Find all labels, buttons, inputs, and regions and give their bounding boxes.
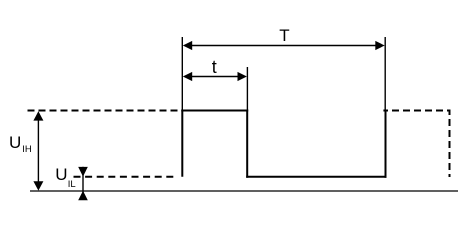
extension line right of T dimension [384,37,386,110]
arrowhead t left [183,72,192,81]
wire: pulse falling edge [246,110,248,178]
svg-text:T: T [279,26,289,45]
arrowhead T right [375,41,384,50]
dimension line U_IL (low level, outside arrows) [82,167,84,200]
extension line right of t dimension [246,67,248,110]
arrowhead t right [238,72,247,81]
wire: pulse low segment [246,176,386,178]
arrowhead U_IL top (points down, tip on dashed low line) [78,167,88,177]
baseline (signal ground axis) [30,190,458,192]
arrowhead U_IH top (up) [33,111,43,120]
dimension line T [189,45,378,47]
svg-text:IL: IL [68,179,76,190]
wire: pulse rising edge 2 [385,110,387,178]
dimension line U_IH (high level amplitude) [37,118,39,184]
arrowhead T left [183,41,192,50]
arrowhead U_IL bottom (points up, tip on baseline) [78,191,88,200]
extension line left (shared by T and t dimensions) [181,37,183,110]
wire: dashed continuation of next pulse (top right + falling edge) [383,111,449,178]
svg-text:t: t [212,57,217,77]
arrowhead U_IH bottom (down) [33,181,43,190]
svg-text:U: U [55,165,67,184]
svg-text:IH: IH [22,144,32,155]
svg-text:U: U [9,133,21,152]
wire: dashed low level, left continuation [74,176,178,178]
dimension line t [189,76,240,78]
wire: pulse rising edge 1 [181,110,183,177]
wire: pulse high segment [181,110,248,112]
wire: dashed high level, left continuation [28,110,183,112]
